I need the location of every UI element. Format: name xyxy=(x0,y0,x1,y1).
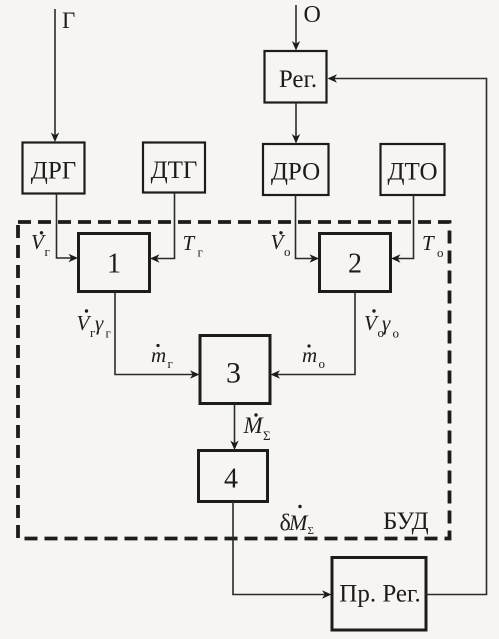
svg-text:Рег.: Рег. xyxy=(279,66,317,93)
net m_о label xyxy=(302,343,325,371)
block 1 xyxy=(79,234,150,292)
svg-text:о: о xyxy=(284,244,291,259)
block ДТО xyxy=(381,144,445,195)
dashed box БУД xyxy=(18,222,450,539)
svg-text:2: 2 xyxy=(348,249,362,280)
svg-text:Σ: Σ xyxy=(308,525,314,537)
wire Рег. to ДРО xyxy=(295,103,297,139)
block 4 xyxy=(199,451,268,502)
svg-text:ДТГ: ДТГ xyxy=(151,157,198,184)
svg-text:Пр. Рег.: Пр. Рег. xyxy=(339,581,420,608)
net δM_Σ label xyxy=(280,505,314,537)
svg-text:г: г xyxy=(168,356,173,371)
svg-text:г: г xyxy=(45,244,50,259)
net m_г label xyxy=(151,343,173,371)
wire block 3 to block 4 xyxy=(234,404,236,445)
net V_г label xyxy=(31,230,50,259)
block Рег. xyxy=(265,51,327,103)
wire Г input xyxy=(54,9,56,137)
net V_о γ_о label xyxy=(364,309,399,340)
svg-text:M: M xyxy=(288,510,309,535)
net M_Σ label xyxy=(243,413,271,443)
svg-text:γ: γ xyxy=(95,311,104,335)
svg-text:Г: Г xyxy=(62,8,75,33)
wire ДРГ to block 1 xyxy=(57,194,73,259)
wire ДТГ to block 1 xyxy=(156,193,175,259)
svg-text:T: T xyxy=(422,231,435,255)
svg-text:T: T xyxy=(183,231,196,255)
wire feedback Пр.Рег. to Рег. xyxy=(334,79,487,595)
wire ДТО to block 2 xyxy=(397,195,414,259)
svg-text:ДРО: ДРО xyxy=(271,159,320,186)
svg-text:о: о xyxy=(437,245,444,260)
svg-text:о: о xyxy=(319,356,326,371)
wire ДРО to block 2 xyxy=(296,195,314,259)
wire block 4 to Пр.Рег. xyxy=(233,502,325,595)
svg-text:г: г xyxy=(106,326,111,341)
block 2 xyxy=(320,234,391,292)
net V_о label xyxy=(271,230,291,259)
svg-text:О: О xyxy=(304,2,321,28)
net V_г γ_г label xyxy=(77,309,111,340)
block ДРО xyxy=(263,144,329,195)
wire О input xyxy=(295,5,297,44)
svg-text:ДРГ: ДРГ xyxy=(31,158,76,185)
svg-text:M: M xyxy=(243,413,265,438)
block Пр.Рег. xyxy=(332,558,426,631)
block ДТГ xyxy=(143,143,205,193)
block ДРГ xyxy=(23,143,85,194)
wire block 1 to block 3 xyxy=(115,292,193,375)
svg-text:г: г xyxy=(198,245,203,260)
svg-text:ДТО: ДТО xyxy=(387,159,437,186)
svg-text:3: 3 xyxy=(226,357,241,390)
svg-text:γ: γ xyxy=(382,311,391,335)
net T_г label xyxy=(183,231,203,260)
wire block 2 to block 3 xyxy=(277,292,355,375)
svg-text:1: 1 xyxy=(107,249,121,280)
svg-text:БУД: БУД xyxy=(383,508,429,535)
svg-text:Σ: Σ xyxy=(263,428,271,443)
block 3 xyxy=(200,336,270,404)
svg-text:о: о xyxy=(393,326,400,341)
svg-text:4: 4 xyxy=(224,464,238,495)
net T_о label xyxy=(422,231,444,260)
